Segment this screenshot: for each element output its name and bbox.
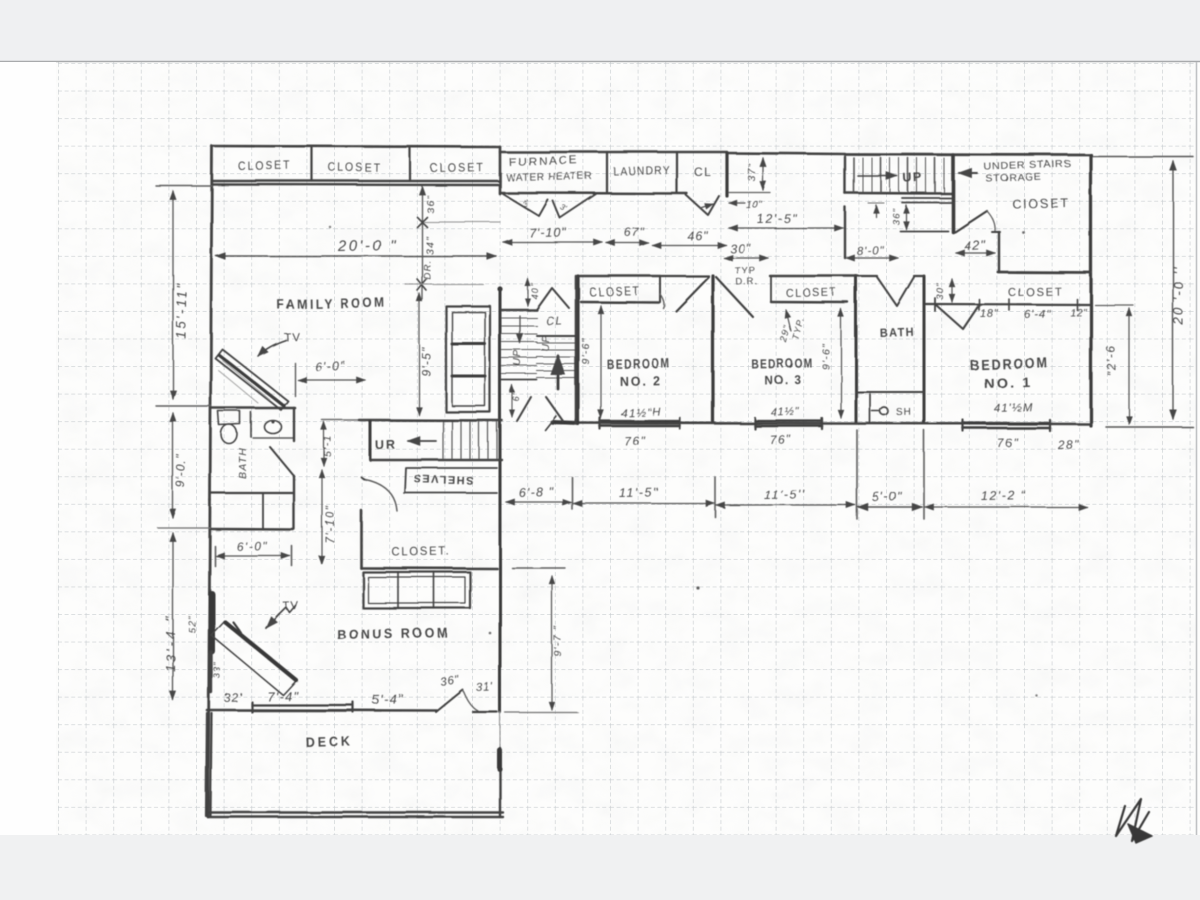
x-tick at 284 xyxy=(417,279,426,290)
wall: top exterior (furnace/laundry row) xyxy=(500,151,727,154)
wall: top exterior (stairs to right corner) xyxy=(845,153,1091,156)
dim 15'-11 xyxy=(172,191,174,399)
under stairs door arc xyxy=(987,211,995,231)
dim 67 line xyxy=(606,242,648,244)
svg-text:BEDROOM: BEDROOM xyxy=(970,355,1050,374)
svg-text:9'-6": 9'-6" xyxy=(820,342,832,369)
furnace row bottom wall xyxy=(500,192,687,195)
window b2 xyxy=(600,420,680,422)
wall east of stairs xyxy=(575,276,578,424)
svg-text:41'½M: 41'½M xyxy=(994,402,1034,415)
svg-text:5'-1: 5'-1 xyxy=(322,435,334,457)
b1 door swing xyxy=(936,305,979,329)
tick y427 right xyxy=(1106,426,1193,428)
stairs UP arrow xyxy=(858,175,897,177)
svg-text:36": 36" xyxy=(891,207,902,225)
downstairs box bottom xyxy=(502,379,537,381)
dim 12'-2 xyxy=(925,506,1087,508)
dim 29 arrow b3 xyxy=(786,310,791,331)
furnace double doors xyxy=(503,194,548,216)
svg-text:12": 12" xyxy=(1070,307,1088,319)
svg-text:9'-6": 9'-6" xyxy=(580,337,592,364)
svg-text:9'-7 ": 9'-7 " xyxy=(552,625,564,656)
svg-text:DECK: DECK xyxy=(306,733,353,750)
svg-text:13'-4 ": 13'-4 " xyxy=(163,614,178,672)
closet1 east wall xyxy=(998,232,1000,272)
dim 10in arrow xyxy=(729,202,745,204)
dim 20'-0 line xyxy=(216,255,496,257)
deck west edge double xyxy=(206,713,207,816)
svg-text:TYP: TYP xyxy=(735,265,756,277)
upstairs top xyxy=(537,335,576,337)
b2 door leaf xyxy=(676,277,709,311)
svg-text:5'-0": 5'-0" xyxy=(872,489,903,504)
dim 7'-10 line xyxy=(503,241,602,243)
TV sketch lines xyxy=(218,360,270,403)
door stub xyxy=(992,231,1000,233)
svg-text:UP: UP xyxy=(512,350,524,367)
svg-text:BEDROOM: BEDROOM xyxy=(751,355,813,371)
dim 11'-5 a xyxy=(573,502,714,504)
svg-text:34": 34" xyxy=(424,235,436,254)
svg-text:LAUNDRY: LAUNDRY xyxy=(613,165,671,178)
signature mark bottom right xyxy=(1116,799,1149,841)
wall between closet and furnace xyxy=(499,147,502,194)
left bath east wall lower xyxy=(293,476,295,529)
deck east wall xyxy=(499,748,501,817)
dim 6'-8 xyxy=(506,501,571,503)
dim 9'-5 xyxy=(418,293,420,415)
deck south edge double xyxy=(207,811,503,813)
svg-text:10": 10" xyxy=(746,199,764,211)
scan specks xyxy=(696,586,699,589)
shelves box xyxy=(404,468,497,493)
TV bonus console xyxy=(211,621,296,695)
window b1 xyxy=(963,422,1050,424)
svg-text:76": 76" xyxy=(625,434,648,449)
svg-text:5'-4": 5'-4" xyxy=(372,691,404,707)
counter line xyxy=(253,437,294,439)
underclst bottom wall xyxy=(998,271,1091,274)
svg-text:30": 30" xyxy=(935,282,946,300)
up arrow thick xyxy=(557,356,560,389)
family door swing xyxy=(517,397,531,421)
svg-text:NO. 2: NO. 2 xyxy=(620,373,662,389)
TV bonus arrow xyxy=(279,606,296,614)
ext line y222 xyxy=(424,221,500,223)
dim 6'-0 lower xyxy=(216,555,290,557)
door swing CL xyxy=(686,195,719,215)
dim 36 vestibule xyxy=(905,205,907,229)
ext line y284 xyxy=(405,283,483,285)
svg-text:6'-4": 6'-4" xyxy=(1024,309,1051,321)
bath west wall xyxy=(855,276,858,423)
stairs box xyxy=(844,157,846,193)
svg-text:BATH: BATH xyxy=(237,447,249,479)
svg-text:41½": 41½" xyxy=(771,406,801,419)
upstairs treads xyxy=(537,342,576,344)
deck east dark band xyxy=(497,750,502,769)
vestibule west wall xyxy=(844,207,846,258)
svg-text:FAMILY ROOM: FAMILY ROOM xyxy=(277,295,387,312)
sink basin xyxy=(265,421,282,434)
UR arrow xyxy=(408,440,436,442)
dim 46 line xyxy=(652,244,726,246)
hall door swing xyxy=(537,288,569,309)
closet south wall xyxy=(361,567,497,570)
dim 9'-6 b2 xyxy=(600,306,602,418)
bath top wall segs xyxy=(856,275,877,277)
bonus east wall lower part xyxy=(499,712,501,748)
cabinet east of family room xyxy=(446,306,490,412)
tick y305 right xyxy=(1095,304,1133,306)
svg-text:41½"H: 41½"H xyxy=(621,407,662,420)
b3 closet top xyxy=(770,275,857,277)
b1 closet front wall with dim ticks xyxy=(926,303,1090,306)
svg-text:NO. 1: NO. 1 xyxy=(984,374,1032,391)
svg-text:UP: UP xyxy=(540,335,552,352)
svg-text:9'-5": 9'-5" xyxy=(419,346,433,376)
svg-text:12'-5": 12'-5" xyxy=(757,211,798,226)
cabinet dividers xyxy=(452,343,485,346)
x-tick at 222 xyxy=(417,217,427,227)
svg-text:11'-5": 11'-5" xyxy=(619,485,659,500)
dim 11'-5 b xyxy=(716,504,855,506)
svg-text:32': 32' xyxy=(224,690,243,705)
svg-text:36": 36" xyxy=(425,194,437,213)
bottom scanner band xyxy=(0,835,1200,900)
closet wiggle xyxy=(660,294,664,308)
dim 12'-5 line xyxy=(729,227,843,229)
tick x857 xyxy=(856,430,858,519)
laundry chute south wall xyxy=(211,528,293,531)
svg-text:7'-10": 7'-10" xyxy=(529,225,567,240)
svg-text:CLOSET: CLOSET xyxy=(238,158,292,173)
svg-text:37": 37" xyxy=(746,162,758,181)
tick 979 xyxy=(978,299,980,310)
svg-text:NO. 3: NO. 3 xyxy=(764,372,802,387)
svg-text:TV: TV xyxy=(284,331,301,344)
tick 6-0 left xyxy=(294,363,296,396)
tick x924 xyxy=(923,430,925,519)
scan edge line right xyxy=(1196,62,1198,835)
svg-text:42": 42" xyxy=(964,237,987,253)
small dim 3 arrow xyxy=(875,205,877,217)
dim 8'-0 line xyxy=(846,257,898,259)
svg-text:6'-8 ": 6'-8 " xyxy=(519,485,555,500)
svg-text:76": 76" xyxy=(997,435,1020,450)
UR treads xyxy=(442,422,444,459)
svg-text:CLOSET: CLOSET xyxy=(1008,286,1063,299)
svg-text:SH: SH xyxy=(896,407,912,418)
svg-text:76": 76" xyxy=(770,432,793,447)
svg-text:20'-0 ": 20'-0 " xyxy=(337,237,398,255)
svg-text:52": 52" xyxy=(187,615,198,633)
small closet divider xyxy=(262,493,264,529)
window b3 xyxy=(755,420,822,422)
window bonus xyxy=(252,704,353,706)
scan edge line top xyxy=(0,61,1200,63)
tick y186 xyxy=(156,185,212,187)
svg-text:30": 30" xyxy=(730,241,752,256)
svg-text:WATER HEATER: WATER HEATER xyxy=(506,170,593,184)
b2 closet box xyxy=(580,275,660,277)
svg-text:6'-0": 6'-0" xyxy=(315,359,346,374)
tick y528 xyxy=(158,527,210,529)
closet west wall xyxy=(360,510,363,568)
svg-text:20 '-0 '': 20 '-0 '' xyxy=(1171,265,1186,326)
wall b2-b3 xyxy=(711,276,714,423)
dim 20'-0 right xyxy=(1172,161,1174,419)
left bath north wall xyxy=(211,407,295,410)
dim 6'-0 family xyxy=(298,379,365,381)
deck door leaf xyxy=(436,690,463,712)
svg-text:CLOSET: CLOSET xyxy=(430,160,485,175)
svg-text:ClOSET: ClOSET xyxy=(1012,196,1070,211)
svg-text:40": 40" xyxy=(530,283,540,300)
svg-text:UR: UR xyxy=(375,438,397,452)
closet divider 2 xyxy=(409,147,411,181)
shower symbol xyxy=(880,407,888,415)
svg-text:67": 67" xyxy=(624,224,645,239)
UR west wall xyxy=(369,421,372,459)
dim 6'-2 xyxy=(1128,308,1130,424)
svg-text:15'-11": 15'-11" xyxy=(174,281,189,339)
svg-text:18": 18" xyxy=(980,308,999,320)
wall right of CL xyxy=(725,153,728,196)
TV console xyxy=(215,349,288,410)
downstairs treads xyxy=(502,317,537,319)
svg-text:33": 33" xyxy=(212,661,223,679)
bonus sofa xyxy=(363,572,470,608)
UR bottom xyxy=(370,459,502,461)
svg-text:BATH: BATH xyxy=(880,325,915,340)
svg-text:BONUS ROOM: BONUS ROOM xyxy=(337,625,450,642)
dim 9'-6 b3 xyxy=(840,309,842,418)
svg-text:″2'-6: ″2'-6 xyxy=(1103,344,1119,376)
down arrow xyxy=(519,316,521,343)
wall y310 xyxy=(502,309,537,311)
bath divider xyxy=(250,412,252,437)
svg-text:8'-0": 8'-0" xyxy=(857,245,885,258)
svg-text:BEDROOM: BEDROOM xyxy=(607,356,671,372)
tick 935 xyxy=(934,298,936,311)
deck door arc xyxy=(463,690,478,711)
south wall left tick xyxy=(545,416,556,430)
hall wall y276 xyxy=(660,275,709,277)
svg-text:CLOSET: CLOSET xyxy=(589,284,641,299)
dim 30 vert b1 xyxy=(951,279,953,302)
svg-text:CL: CL xyxy=(694,165,712,179)
b3 closet bottom xyxy=(771,301,848,304)
bath door swing xyxy=(877,277,914,306)
svg-text:28": 28" xyxy=(1057,437,1081,452)
svg-text:D.R.: D.R. xyxy=(736,276,759,288)
svg-text:UP: UP xyxy=(903,170,924,185)
wall: top exterior (family-room closets) xyxy=(212,146,500,147)
svg-text:STORAGE: STORAGE xyxy=(986,172,1042,185)
svg-text:FURNACE: FURNACE xyxy=(509,155,579,169)
dim 30 line xyxy=(724,257,768,259)
left white margin xyxy=(0,62,56,835)
closet row bottom wall (double) xyxy=(212,180,500,182)
stairs landing double line xyxy=(902,197,953,199)
svg-text:CLOSET: CLOSET xyxy=(786,287,838,300)
svg-text:CL: CL xyxy=(546,315,564,328)
svg-text:12'-2 “: 12'-2 “ xyxy=(981,488,1027,503)
toilet tank xyxy=(218,411,240,425)
divider laundry-CL xyxy=(676,152,678,193)
svg-text:11'-5'': 11'-5'' xyxy=(764,487,806,502)
svg-text:6'-0": 6'-0" xyxy=(237,539,269,554)
svg-text:31': 31' xyxy=(476,681,494,694)
left bath door leaf xyxy=(270,447,294,476)
hall wall top node xyxy=(497,286,502,291)
b3 door leaf xyxy=(716,277,753,317)
dim 40 vert xyxy=(527,279,529,306)
left bath east wall xyxy=(293,408,295,441)
left bath south wall xyxy=(211,492,293,494)
bonus south wall xyxy=(207,709,437,712)
tick y568 xyxy=(512,567,565,569)
svg-text:CLOSET: CLOSET xyxy=(328,160,382,175)
svg-text:SHELVES: SHELVES xyxy=(412,472,473,486)
svg-text:CLOSET.: CLOSET. xyxy=(392,544,451,559)
tick 1009 xyxy=(1008,299,1010,310)
b3 closet left tick xyxy=(770,276,772,302)
hall west wall x500 xyxy=(499,288,502,712)
bedrooms south wall xyxy=(552,423,1091,424)
closet door arc xyxy=(363,479,397,511)
svg-text:DR.: DR. xyxy=(422,259,433,279)
tick under 37 xyxy=(729,192,770,194)
svg-text:9'-0.": 9'-0." xyxy=(174,454,188,488)
svg-text:7'-4": 7'-4" xyxy=(267,688,299,704)
dim chain 36/34/DR vertical xyxy=(421,186,423,299)
TV arrow xyxy=(258,340,286,356)
dim 42 line xyxy=(956,252,995,254)
svg-text:7'-10": 7'-10" xyxy=(325,505,337,544)
dim 5'-1 xyxy=(323,422,325,466)
tick y406 xyxy=(156,405,211,407)
tick small xyxy=(868,202,884,204)
dim 6 vert xyxy=(511,385,513,417)
tick x715 xyxy=(714,477,716,517)
tick 1077 xyxy=(1076,299,1078,310)
toilet bowl xyxy=(221,425,237,444)
wall y420 xyxy=(322,419,359,421)
svg-text:46": 46" xyxy=(687,228,709,243)
dim 9'-0 xyxy=(172,413,174,518)
dim 37in vertical xyxy=(762,158,764,190)
tick x572 xyxy=(571,477,573,509)
dim 13'-4 xyxy=(172,533,174,700)
closet divider 1 xyxy=(311,147,313,181)
under stairs closet door leaf xyxy=(955,211,987,232)
window: bonus room west wall xyxy=(208,594,215,624)
wall: top exterior (hall section) xyxy=(727,153,845,154)
svg-text:6": 6" xyxy=(511,391,521,402)
wall: right exterior xyxy=(1089,155,1092,426)
stairs right wall thick xyxy=(951,155,955,232)
bath east wall xyxy=(923,276,926,423)
arrow to under stairs storage xyxy=(959,172,977,174)
divider furnace-laundry xyxy=(606,152,608,193)
dim 9'-7 xyxy=(551,576,553,710)
wall west of b2 xyxy=(576,276,579,424)
bath shelf line xyxy=(856,391,924,393)
vestibule inner wall xyxy=(900,230,948,232)
dim 7'-10 vert xyxy=(321,470,323,564)
stairs treads xyxy=(853,158,855,192)
wall: left exterior xyxy=(210,146,212,500)
top scanner band xyxy=(0,0,1200,61)
dim 5'-0 xyxy=(858,506,922,508)
extension line to 20'-0 dim xyxy=(1091,156,1193,158)
